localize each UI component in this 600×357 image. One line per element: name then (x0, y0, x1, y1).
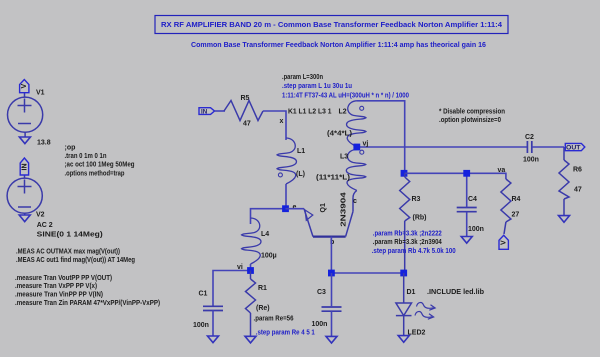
capacitor C4 (457, 208, 477, 212)
svg-text:100µ: 100µ (261, 253, 277, 260)
svg-text:.step param Re 4 5 1: .step param Re 4 5 1 (256, 330, 315, 337)
svg-text:.measure Tran VinPP PP V(IN): .measure Tran VinPP PP V(IN) (15, 292, 103, 299)
wire C4 (466, 173, 468, 207)
phase dot L2 (360, 106, 364, 110)
capacitor C1 (203, 306, 223, 310)
wire L3 exit (353, 190, 357, 197)
resistor R3 (400, 173, 410, 273)
voltage source V2 (7, 175, 42, 215)
svg-text:R3: R3 (412, 196, 421, 203)
title box (155, 16, 508, 34)
ground (C4) (461, 237, 472, 244)
svg-text:V: V (501, 240, 508, 245)
svg-text:R5: R5 (241, 95, 250, 102)
capacitor C3 (322, 307, 342, 311)
node D1 junction (400, 270, 407, 277)
svg-text:.tran 0 1m 0 1n: .tran 0 1m 0 1n (65, 153, 107, 160)
svg-text:vj: vj (363, 141, 369, 148)
ground (C1) (208, 336, 219, 343)
svg-text:IN: IN (201, 109, 208, 116)
svg-text:47: 47 (574, 187, 582, 194)
svg-text:Q1: Q1 (320, 203, 327, 212)
ground (V1) (19, 137, 30, 144)
wire C3 (331, 273, 333, 307)
svg-text:1:11:4T FT37-43 AL uH=(300uH *: 1:11:4T FT37-43 AL uH=(300uH * n * n) / … (282, 92, 409, 99)
svg-text:D1: D1 (407, 289, 416, 296)
node vi junction (247, 267, 254, 274)
svg-text:C1: C1 (199, 291, 208, 298)
svg-text:R1: R1 (258, 285, 267, 292)
svg-text:c: c (353, 198, 357, 205)
resistor R6 (559, 147, 569, 216)
net flag OUT (565, 143, 585, 151)
svg-text:100n: 100n (523, 157, 539, 164)
ground (D1) (398, 336, 409, 343)
spice directives block left (65, 144, 135, 177)
svg-text:.param Rb=3.3k ;2n3904: .param Rb=3.3k ;2n3904 (373, 239, 442, 246)
svg-text:e: e (293, 204, 297, 211)
svg-text:RX RF AMPLIFIER BAND 20 m - Co: RX RF AMPLIFIER BAND 20 m - Common Base … (161, 22, 502, 29)
svg-text:(Re): (Re) (256, 305, 270, 312)
wire supply rail right (405, 173, 506, 179)
LED light arrows (415, 302, 435, 319)
svg-text:R6: R6 (573, 167, 582, 174)
wire IN to R5 (215, 110, 226, 112)
svg-text:AC 2: AC 2 (37, 222, 53, 229)
inductor L1 (277, 138, 296, 184)
svg-text:;op: ;op (65, 144, 76, 151)
ground (R1) (245, 336, 256, 343)
svg-text:C2: C2 (525, 134, 534, 141)
phase dot L3 (360, 150, 364, 154)
svg-text:LED2: LED2 (408, 330, 426, 337)
svg-text:L3: L3 (340, 154, 348, 161)
svg-text:(11*11*L): (11*11*L) (316, 174, 350, 181)
svg-text:(L): (L) (296, 171, 305, 178)
net flag V (on V1) (20, 80, 29, 93)
svg-text:100n: 100n (468, 226, 484, 233)
resistor R1 (246, 271, 256, 337)
bottom rail wire (331, 272, 403, 274)
inductor L2 (347, 101, 366, 147)
wire base down (330, 237, 332, 273)
net flag V (below R4) (499, 235, 508, 249)
svg-text:47: 47 (243, 121, 251, 128)
svg-text:V: V (21, 83, 28, 88)
svg-text:.MEAS AC out1 find mag(V(out)): .MEAS AC out1 find mag(V(out)) AT 14Meg (16, 257, 135, 264)
ground (V2) (19, 215, 30, 222)
svg-text:IN: IN (21, 164, 28, 171)
node base junction (328, 270, 335, 277)
wire L4 to vi (250, 264, 252, 271)
svg-text:100n: 100n (312, 321, 328, 328)
voltage source V1 (8, 93, 43, 137)
node C4 junction (463, 170, 470, 177)
svg-text:C4: C4 (468, 196, 477, 203)
svg-text:V2: V2 (36, 212, 45, 219)
capacitor C2 (527, 141, 531, 153)
svg-text:OUT: OUT (566, 144, 581, 151)
svg-text:vi: vi (237, 264, 243, 271)
svg-text:L2: L2 (339, 109, 347, 116)
wire vj row to C2 (357, 146, 527, 148)
svg-text:.param Rb=3.3k ;2n2222: .param Rb=3.3k ;2n2222 (373, 231, 442, 238)
svg-text:.INCLUDE led.lib: .INCLUDE led.lib (427, 289, 484, 296)
ground (C3) (326, 336, 337, 343)
svg-text:27: 27 (512, 212, 520, 219)
ground (R6) (559, 216, 570, 223)
wire C1 to ground (212, 311, 214, 337)
svg-text:(4*4*L): (4*4*L) (327, 130, 352, 137)
wire vi row to C1 (213, 271, 251, 307)
node vj junction (353, 144, 360, 151)
transistor Q1 2N3904 (304, 198, 353, 237)
svg-text:.MEAS AC OUTMAX max mag(V(out): .MEAS AC OUTMAX max mag(V(out)) (16, 248, 120, 255)
wire C2 to OUT (532, 146, 564, 148)
net flag IN (on V2) (20, 158, 28, 175)
svg-text:.param L=300n: .param L=300n (282, 74, 323, 81)
svg-text:.param Re=56: .param Re=56 (254, 315, 294, 322)
svg-text:.step param L 1u 30u 1u: .step param L 1u 30u 1u (282, 83, 352, 90)
svg-text:va: va (498, 167, 506, 174)
resistor R4 (501, 179, 511, 234)
phase dot L1 (278, 173, 282, 177)
svg-text:L1: L1 (297, 148, 305, 155)
inductor L4 (242, 218, 261, 264)
svg-text:R4: R4 (512, 196, 521, 203)
svg-text:K1 L1 L2 L3 1: K1 L1 L2 L3 1 (288, 109, 332, 116)
.MEAS text block (15, 248, 160, 307)
svg-text:L4: L4 (261, 231, 269, 238)
svg-text:.step param Rb 4.7k 5.0k 100: .step param Rb 4.7k 5.0k 100 (372, 248, 456, 255)
svg-text:(Rb): (Rb) (413, 215, 427, 222)
svg-text:* Disable compression: * Disable compression (439, 109, 505, 116)
wire L1 to e node (285, 184, 287, 209)
svg-text:SINE(0 1 14Meg): SINE(0 1 14Meg) (37, 231, 103, 238)
resistor R5 (224, 101, 263, 121)
svg-text:x: x (280, 118, 284, 125)
svg-text:.measure Tran VxPP PP V(x): .measure Tran VxPP PP V(x) (15, 283, 97, 290)
svg-text:.option plotwinsize=0: .option plotwinsize=0 (439, 117, 501, 124)
wire e-row (251, 209, 286, 224)
svg-text:13.8: 13.8 (37, 140, 51, 147)
svg-text:.measure Tran VoutPP PP V(OUT): .measure Tran VoutPP PP V(OUT) (15, 275, 112, 282)
node e junction (282, 205, 289, 212)
svg-text:2N3904: 2N3904 (341, 192, 348, 227)
svg-text:.options method=trap: .options method=trap (65, 170, 125, 177)
svg-text:Common Base Transformer Feedba: Common Base Transformer Feedback Norton … (191, 42, 486, 49)
diode D1 LED (396, 273, 412, 336)
wire L2 top to supply column (357, 101, 405, 174)
svg-text:V1: V1 (36, 90, 45, 97)
wire e to emitter (286, 208, 305, 210)
svg-text:C3: C3 (317, 289, 326, 296)
wire R5 to L1 (263, 111, 286, 140)
svg-text:100n: 100n (193, 322, 209, 329)
net flag IN (input) (199, 108, 215, 116)
svg-text:;ac oct 100 1Meg 50Meg: ;ac oct 100 1Meg 50Meg (65, 162, 135, 169)
inductor L3 (346, 150, 365, 191)
svg-text:.measure Tran Zin PARAM 47*VxP: .measure Tran Zin PARAM 47*VxPP/(VinPP-V… (15, 300, 160, 307)
node supply junction (401, 170, 408, 177)
